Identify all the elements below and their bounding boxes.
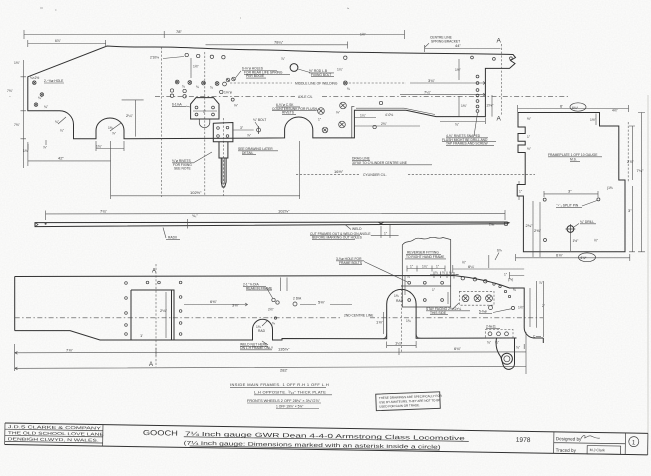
big circle hole	[290, 64, 298, 72]
svg-text:4'-0⅛: 4'-0⅛	[385, 113, 393, 117]
holes and dims middle	[184, 303, 248, 306]
right side dims	[629, 113, 645, 252]
arrow tick on strip	[378, 222, 384, 225]
stay facing dashed box	[459, 291, 494, 305]
svg-text:BEFORE MARKING OUT HOLES: BEFORE MARKING OUT HOLES	[312, 236, 363, 240]
svg-text:¾: ¾	[182, 85, 185, 89]
svg-text:FIXING BOLT: FIXING BOLT	[311, 73, 331, 77]
svg-text:1978: 1978	[516, 437, 531, 444]
hole pair near note	[226, 78, 230, 82]
right edge	[647, 433, 649, 454]
svg-text:TO RIGHT HAND FRAME: TO RIGHT HAND FRAME	[406, 255, 445, 259]
svg-text:3": 3"	[628, 208, 632, 213]
centre line dashed vertical bogie	[161, 47, 163, 197]
svg-text:6⅞": 6⅞"	[55, 39, 62, 43]
svg-text:TAP FRAMES AND SCREW: TAP FRAMES AND SCREW	[446, 142, 489, 146]
dim 6ft top	[518, 105, 629, 112]
svg-text:6¼*: 6¼*	[572, 106, 579, 110]
centre line dashed vertical bracket	[205, 52, 224, 196]
svg-text:THIS SIDE: THIS SIDE	[430, 311, 447, 315]
drill hole	[567, 226, 574, 233]
svg-text:CYLINDER C/L.: CYLINDER C/L.	[363, 173, 387, 177]
svg-text:¾" DRILL: ¾" DRILL	[580, 220, 594, 224]
centre line dashed	[15, 317, 543, 319]
bracket plate 1 chamfered	[191, 98, 219, 119]
stretcher rectangle	[131, 290, 174, 340]
leader 2-10 bolts	[163, 57, 184, 59]
dim 44 spring bracket	[425, 45, 501, 52]
hanger bar	[219, 142, 228, 158]
svg-text:282': 282'	[280, 368, 288, 373]
svg-text:1⅞": 1⅞"	[376, 320, 384, 325]
dim 3/4 below	[440, 118, 485, 125]
svg-text:6¼': 6¼'	[468, 264, 475, 269]
designed/traced box	[554, 432, 626, 455]
plate rivets	[408, 281, 444, 301]
dim 3 to bolt	[233, 129, 254, 131]
svg-text:REVERSER FITTING: REVERSER FITTING	[407, 250, 439, 254]
svg-text:5-⅜ø: 5-⅜ø	[479, 310, 487, 314]
lug below plate1	[199, 119, 210, 128]
svg-text:1½": 1½"	[193, 65, 200, 69]
dim 6-7/8	[28, 40, 106, 47]
svg-text:6⅞": 6⅞"	[556, 253, 564, 258]
dim 1 below strip right	[371, 225, 399, 238]
pin rod	[221, 158, 226, 187]
stray specks top	[40, 8, 349, 18]
svg-text:2⅛": 2⅛"	[381, 122, 388, 126]
svg-text:6': 6'	[560, 103, 563, 108]
svg-text:1½": 1½"	[590, 118, 597, 122]
dim 1.25	[354, 117, 376, 119]
frame side elevation group	[7, 29, 568, 199]
svg-text:7⅛": 7⅛"	[14, 123, 21, 127]
svg-text:2½": 2½"	[268, 308, 275, 312]
traced name inner box	[587, 446, 621, 455]
svg-text:1¼": 1¼"	[422, 264, 429, 268]
welding line dashed	[230, 82, 406, 84]
svg-text:1¼": 1¼"	[395, 341, 403, 346]
svg-text:7⅛": 7⅛"	[7, 89, 14, 93]
curve region holes	[461, 277, 464, 280]
interior dim 3	[544, 191, 598, 197]
svg-text:2⅛": 2⅛"	[487, 103, 495, 108]
top hole row	[185, 53, 188, 56]
right hole column	[471, 56, 513, 112]
hatched rivet circles	[318, 102, 347, 133]
signature squiggle	[581, 435, 600, 439]
svg-text:7¼": 7¼"	[424, 89, 432, 94]
step angle bar	[352, 106, 355, 138]
svg-text:1¼": 1¼"	[337, 68, 344, 72]
lower right details group	[15, 239, 547, 375]
svg-text:7¾": 7¾"	[100, 209, 108, 214]
svg-text:SPRING BRACKET: SPRING BRACKET	[431, 39, 460, 43]
svg-text:M.J Clark: M.J Clark	[590, 448, 605, 452]
svg-text:1⅜": 1⅜"	[461, 104, 468, 108]
dim 42	[28, 141, 111, 199]
outer top border	[5, 423, 648, 433]
svg-text:4½": 4½"	[612, 109, 619, 113]
middle strip (frame top angle) group	[35, 209, 509, 240]
svg-text:PER BOGIE: PER BOGIE	[246, 74, 265, 78]
dim 2.25 left	[122, 100, 144, 137]
svg-text:A: A	[152, 269, 156, 275]
svg-text:1': 1'	[140, 333, 143, 338]
svg-text:¾: ¾	[210, 86, 213, 90]
svg-text:7¼": 7¼"	[637, 168, 645, 173]
svg-text:1½": 1½"	[518, 306, 525, 310]
svg-text:2¾": 2¾"	[526, 223, 534, 228]
outer bottom border	[5, 444, 648, 454]
svg-text:WELD: WELD	[352, 227, 362, 231]
small tick dims along curve	[430, 272, 458, 279]
left edge	[4, 423, 6, 444]
tick divider	[186, 219, 188, 229]
svg-text:DETAIL: DETAIL	[242, 151, 253, 155]
svg-text:102½": 102½"	[190, 190, 202, 195]
bottom edge with arches	[15, 289, 517, 340]
bottom dimension chain	[15, 332, 526, 374]
svg-text:FRAMEPLATE 1 OFF 10 GAUGE: FRAMEPLATE 1 OFF 10 GAUGE	[548, 153, 598, 157]
svg-text:6¾*: 6¾*	[581, 256, 588, 260]
svg-text:RAD: RAD	[396, 299, 404, 303]
svg-text:1⅛"ø: 1⅛"ø	[224, 91, 232, 95]
svg-text:44": 44"	[455, 43, 461, 48]
dim 2.125 vertical right	[491, 95, 493, 117]
svg-text:1: 1	[632, 439, 636, 446]
svg-text:(1⅜: (1⅜	[607, 186, 613, 190]
driving horn arch labels	[400, 285, 402, 352]
left mid small circle note	[504, 222, 507, 225]
total dim	[15, 344, 526, 371]
right portion details group	[354, 56, 512, 146]
svg-text:AXLE C/L: AXLE C/L	[298, 95, 313, 99]
svg-text:5⅜": 5⅜"	[318, 300, 326, 305]
reverser plate wavy top outline	[402, 237, 450, 286]
dims on plate	[407, 266, 445, 272]
frame holes and details group	[23, 53, 383, 153]
svg-text:3¾": 3¾"	[428, 78, 436, 83]
svg-text:6-1⅛A: 6-1⅛A	[172, 103, 183, 107]
interior vertical dims	[533, 201, 570, 257]
svg-text:SEE NOTE: SEE NOTE	[174, 167, 191, 171]
svg-text:42": 42"	[58, 156, 64, 161]
section line A-A top	[501, 44, 503, 116]
section line A-A lower	[155, 264, 157, 367]
svg-text:¾×2½: ¾×2½	[30, 76, 40, 80]
left vertical dims	[21, 60, 27, 168]
svg-text:2-№11: 2-№11	[486, 325, 496, 329]
dim 78-1/4	[206, 42, 348, 49]
axle centre line dashed	[155, 95, 568, 97]
svg-text:⁼: ⁼	[9, 95, 11, 99]
svg-text:½: ½	[449, 271, 452, 275]
bracket plate 2	[213, 123, 233, 142]
lower drawing: inside main frames group	[15, 264, 544, 369]
svg-text:L.H OPPOSITE. ³⁄₁₆" THICK PLAT: L.H OPPOSITE. ³⁄₁₆" THICK PLATE	[254, 390, 326, 395]
svg-text:¼: ¼	[442, 271, 445, 275]
stretcher rivets	[125, 281, 182, 335]
left end detail	[35, 223, 38, 227]
small dashed box	[485, 329, 513, 338]
dim line above strip	[46, 210, 505, 220]
svg-text:6⅞: 6⅞	[497, 249, 502, 253]
sheet number circle	[629, 437, 639, 447]
svg-text:A: A	[497, 38, 502, 45]
faint paper edge right	[647, 95, 649, 455]
front end hole cluster	[33, 81, 44, 107]
main frame plate outline	[28, 46, 516, 139]
svg-text:⁼¹⁻₂ SPLIT PIN: ⁼¹⁻₂ SPLIT PIN	[556, 204, 579, 208]
address box row lines	[5, 429, 103, 443]
strip outline	[35, 222, 509, 227]
svg-text:⅜: ⅜	[513, 288, 516, 292]
dims above curve	[453, 265, 524, 275]
svg-text:78": 78"	[176, 29, 182, 34]
plate lower part	[402, 286, 450, 307]
svg-text:1⅛": 1⅛"	[14, 61, 21, 65]
svg-text:3⅜": 3⅜"	[232, 303, 240, 308]
svg-text:3": 3"	[568, 189, 572, 194]
disclaimer box group	[376, 392, 443, 411]
5 holes note	[489, 306, 493, 310]
svg-text:1 OFF 19⅞" × 5⅞": 1 OFF 19⅞" × 5⅞"	[276, 405, 304, 409]
bolt symbol	[257, 128, 261, 132]
dim 1.5 vertical	[190, 58, 192, 78]
split pin holes	[543, 198, 546, 201]
svg-text:RAD: RAD	[258, 329, 266, 333]
title block group (slightly skewed like scan)	[5, 423, 648, 455]
cylinder centre line	[296, 173, 535, 175]
svg-text:6¾": 6¾"	[454, 346, 462, 351]
svg-text:1½": 1½"	[573, 239, 580, 243]
svg-text:⅜: ⅜	[272, 322, 275, 326]
svg-text:FRAME BOLTS: FRAME BOLTS	[339, 261, 363, 265]
svg-text:MIDDLE LINE OF WELDING: MIDDLE LINE OF WELDING	[295, 82, 338, 86]
svg-text:2⅜": 2⅜"	[534, 228, 542, 233]
svg-text:M.S.: M.S.	[570, 158, 577, 162]
svg-text:2№: 2№	[489, 223, 495, 227]
frameplate blank (top right part) group	[489, 103, 645, 262]
svg-text:¼: ¼	[435, 271, 438, 275]
svg-text:2⅛": 2⅛"	[160, 308, 168, 313]
svg-text:¾" BOLT: ¾" BOLT	[253, 118, 266, 122]
dim 78 top	[24, 30, 405, 39]
svg-text:2'10⅛: 2'10⅛	[150, 56, 159, 60]
svg-text:⅞: ⅞	[407, 275, 410, 279]
svg-text:(⅞): (⅞)	[508, 278, 513, 282]
frameplate outline	[517, 113, 625, 252]
svg-text:1⅜: 1⅜	[394, 294, 399, 298]
svg-text:135⅞": 135⅞"	[278, 347, 290, 352]
svg-text:6⅜": 6⅜"	[210, 299, 218, 304]
svg-text:FRONTS WHEELS 2 OFF 28¾" × 3¾: FRONTS WHEELS 2 OFF 28¾" × 3¾"/2⅞"	[247, 399, 321, 403]
bottom dim 6.875	[516, 254, 630, 261]
svg-text:78¼": 78¼"	[274, 40, 284, 45]
notes under lower drawing group	[230, 382, 332, 409]
svg-text:16½": 16½"	[334, 169, 344, 174]
svg-text:1¾: 1¾	[406, 319, 411, 323]
svg-text:GOOCH: GOOCH	[143, 428, 178, 438]
extension ticks near 2-1 dia holes	[281, 278, 287, 292]
svg-text:RIVETS: RIVETS	[282, 111, 295, 115]
left edge	[14, 277, 16, 331]
dim 2.125	[354, 125, 420, 127]
svg-text:A: A	[149, 362, 153, 368]
svg-text:1¾": 1¾"	[96, 145, 103, 149]
svg-text:2¼": 2¼"	[126, 113, 134, 118]
svg-text:INSIDE MAIN FRAMES. 1 OFF R.H: INSIDE MAIN FRAMES. 1 OFF R.H 1 OFF L.H	[230, 382, 329, 387]
rivet row C	[170, 89, 223, 98]
svg-text:7⅞": 7⅞"	[66, 347, 74, 352]
svg-text:A: A	[497, 116, 502, 123]
dims to section	[410, 82, 485, 85]
svg-text:Traced by: Traced by	[556, 448, 577, 453]
svg-text:ON L.H FRAME ONLY: ON L.H FRAME ONLY	[240, 346, 274, 350]
frame bottom doubled line	[356, 108, 435, 114]
svg-text:1⅛": 1⅛"	[23, 149, 30, 153]
svg-text:RADII: RADII	[168, 236, 177, 240]
svg-text:¾,": ¾,"	[192, 213, 198, 218]
rivet row B	[175, 80, 226, 86]
svg-text:¾: ¾	[196, 85, 199, 89]
svg-text:1½": 1½"	[360, 33, 367, 37]
svg-text:2ND CENTRE LINE: 2ND CENTRE LINE	[344, 314, 374, 318]
horn gap base fillets	[383, 334, 421, 339]
drawbar tongue	[496, 338, 514, 369]
svg-text:2-⁼⅛ø HOLE: 2-⁼⅛ø HOLE	[44, 79, 64, 83]
svg-text:Designed by: Designed by	[556, 436, 582, 441]
svg-text:COUNTERSUNK FOR FLUSH: COUNTERSUNK FOR FLUSH	[272, 107, 318, 111]
svg-text:REAM IN FRAME: REAM IN FRAME	[246, 286, 273, 290]
svg-text:⅛: ⅛	[347, 87, 350, 91]
reverser fitting plate group	[336, 237, 451, 307]
dim 1.5 top step	[595, 114, 597, 126]
address box right edge	[102, 425, 104, 446]
dim 102.5	[111, 141, 300, 199]
inside frame outline	[15, 276, 544, 344]
svg-text:30°50' TO CYLINDER CENTRE LINE: 30°50' TO CYLINDER CENTRE LINE	[352, 161, 408, 165]
svg-text:102⅞": 102⅞"	[278, 209, 290, 214]
drawbar pin hole	[501, 353, 512, 364]
svg-text:1½": 1½"	[455, 68, 462, 72]
hanging bracket assembly group	[172, 98, 278, 187]
small hole + labels	[231, 98, 234, 101]
svg-text:2 DIA: 2 DIA	[293, 297, 302, 301]
svg-text:1¼": 1¼"	[360, 113, 367, 117]
reverser label box	[405, 254, 446, 259]
